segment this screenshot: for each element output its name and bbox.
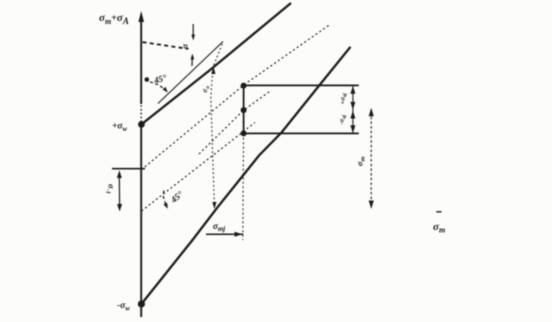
- dimension line right of rectangle (+sigma_aj / -sigma_aj): [350, 86, 355, 134]
- long vertical dimension arrow sigma_m: [369, 108, 374, 209]
- label alpha (rotated): [179, 44, 189, 49]
- 45 deg arc dot: [145, 77, 150, 82]
- rectangle bottom edge: [244, 132, 359, 134]
- svg-text:α: α: [179, 44, 189, 49]
- node rectangle top corner: [241, 83, 247, 89]
- node +sigma_w (dot on axis): [138, 121, 145, 128]
- 45 deg lower dashed arc with arrow: [163, 191, 168, 209]
- label sigma_mj: [213, 221, 225, 233]
- y-axis label sigma_m + sigma_A: [99, 12, 129, 26]
- node rectangle mid point: [241, 107, 247, 113]
- label -sigma_aj (rotated): [339, 114, 348, 124]
- angle alpha down arrow: [191, 24, 195, 41]
- tick at sigma-1 level: [112, 168, 145, 170]
- dashed horizontal reference line: [143, 42, 189, 49]
- angle alpha up arrow: [191, 54, 195, 67]
- leaning dotted vertical (2 sigma_a measurement): [211, 44, 223, 206]
- label sigma_m bar (x-axis label): [433, 221, 445, 235]
- dotted line D2 (45 deg mean line from origin): [142, 123, 256, 212]
- label sigma_m on long arrow (rotated): [354, 156, 366, 166]
- label sigma_a (rotated): [201, 86, 211, 93]
- lower boundary bold line: [141, 47, 350, 304]
- sigma-1 dimension arrow: [117, 170, 122, 211]
- node rectangle bottom corner: [241, 130, 247, 136]
- thin wedge line above upper boundary: [158, 42, 223, 104]
- upper boundary bold line: [141, 3, 291, 124]
- label +sigma_w: [112, 122, 128, 134]
- label 45 deg upper: [152, 72, 168, 85]
- label -sigma_w: [117, 301, 130, 313]
- rectangle left edge: [243, 86, 245, 134]
- rectangle top edge: [244, 84, 359, 86]
- node -sigma_w (dot on axis): [138, 300, 145, 307]
- sigma_mj dimension line with arrow: [206, 232, 243, 237]
- label sigma-1 (rotated): [105, 184, 117, 194]
- label +sigma_aj (rotated): [339, 93, 348, 105]
- down arrowhead touching lower bold line: [212, 202, 216, 209]
- y-axis: [138, 11, 144, 317]
- up arrowhead touching upper bold line: [211, 67, 215, 75]
- label 45 deg lower (rotated): [168, 189, 185, 206]
- 45 deg upper dashed arc with arrow: [150, 82, 168, 93]
- dashed extension of rectangle left edge: [242, 133, 245, 240]
- overbar of sigma_m bar: [436, 211, 441, 213]
- dotted line D3 (through rectangle mid point): [199, 91, 271, 155]
- dotted line D1 (fatigue limit line, upper): [141, 25, 330, 170]
